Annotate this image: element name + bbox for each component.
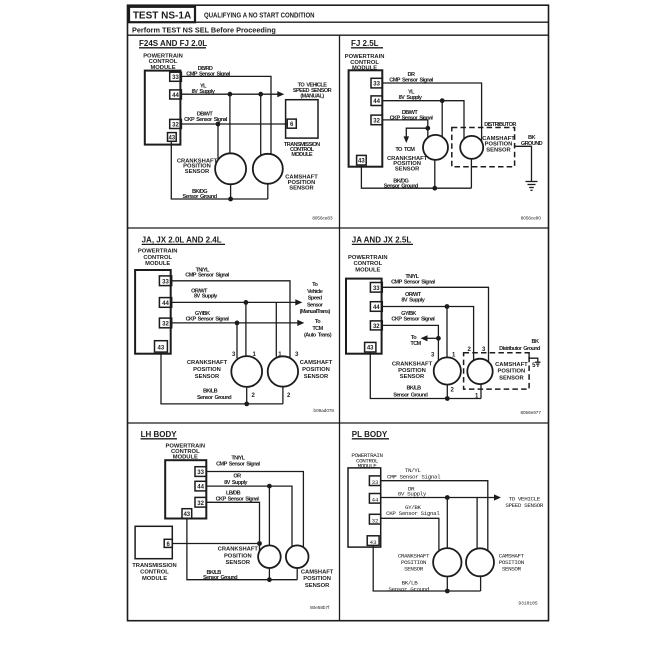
junction dot [445,495,450,500]
pin 32 [371,115,382,125]
wire CKP signal pin32 [382,325,438,360]
svg-text:Distributor Ground: Distributor Ground [499,346,541,352]
pin 43 [182,509,192,519]
junction dot [228,92,233,97]
wire CKP signal pin32 to TCM pin6 [181,123,287,125]
svg-text:POSITION: POSITION [303,576,331,582]
svg-text:CONTROL: CONTROL [353,261,382,267]
svg-text:Speed: Speed [308,296,323,302]
header divider line 2 [128,34,549,36]
camshaft position sensor circle [286,545,309,568]
svg-text:(MANUAL): (MANUAL) [300,93,324,99]
svg-text:CRANKSHAFT: CRANKSHAFT [218,547,259,553]
wire 8V to crank sensor pin1 [245,302,247,355]
wire 8V branch to cam sensor [476,498,478,550]
svg-text:43: 43 [370,539,377,546]
pin 43 [367,536,379,546]
wire 8V supply pin44 [382,101,464,139]
svg-text:9310105: 9310105 [518,601,538,607]
wire 8V supply pin44 to cam sensor pin2 [382,307,473,361]
junction dot [440,98,445,103]
svg-text:CONTROL: CONTROL [140,570,169,576]
junction dot ground [432,186,437,191]
crankshaft position sensor circle [258,545,281,568]
svg-text:32: 32 [373,324,380,330]
svg-text:SENSOR: SENSOR [502,565,522,572]
junction dot ground [267,577,272,582]
svg-text:8V Supply: 8V Supply [224,480,248,486]
junction dot ground [244,402,249,407]
pin 32 [195,497,206,507]
svg-text:SENSOR: SENSOR [305,583,330,589]
svg-text:PL BODY: PL BODY [352,430,388,439]
wire branch to TCM with left arrow [425,337,439,339]
svg-text:Vehicle: Vehicle [307,289,323,295]
svg-text:Sensor: Sensor [307,302,324,308]
camshaft position sensor circle [466,548,494,576]
svg-text:SENSOR: SENSOR [400,374,425,380]
svg-text:Sensor Ground: Sensor Ground [203,575,238,581]
svg-text:8056ce80: 8056ce80 [521,216,542,221]
wire CMP signal pin33 to cam sensor [382,83,481,142]
camshaft position sensor circle [253,154,283,184]
pin 33 [370,283,382,293]
svg-text:8V Supply: 8V Supply [194,294,218,300]
svg-text:80e58b7f: 80e58b7f [310,605,330,610]
svg-text:MODULE: MODULE [142,576,167,582]
svg-text:44: 44 [373,99,380,105]
wire TCM pin6 to CKP wire [172,543,259,545]
svg-text:CMP Sensor Signal: CMP Sensor Signal [185,273,229,279]
svg-text:32: 32 [197,501,204,507]
svg-text:SENSOR: SENSOR [395,167,420,173]
pin 33 [369,476,380,486]
svg-text:SENSOR: SENSOR [226,560,251,566]
svg-text:DISTRIBUTOR: DISTRIBUTOR [484,122,516,128]
svg-text:44: 44 [372,497,379,504]
junction dot [267,484,272,489]
crankshaft position sensor circle [433,548,461,576]
svg-text:CONTROL: CONTROL [143,255,172,261]
pin 43 [168,133,177,142]
svg-text:32: 32 [372,517,379,524]
svg-text:CKP Sensor Signal: CKP Sensor Signal [386,510,440,517]
arrow to vehicle speed sensor [494,494,501,500]
wire cam sensor to ground bus [267,184,269,199]
svg-text:Perform TEST NS SEL Before Pro: Perform TEST NS SEL Before Proceeding [132,25,276,34]
wire cam sensor pin2 to ground [282,387,284,404]
wire cam sensor to ground [296,568,298,580]
svg-text:MODULE: MODULE [291,152,313,158]
pin 33 [195,467,206,477]
wire 8V supply pin44 [172,301,298,303]
svg-text:43: 43 [367,346,374,352]
svg-text:OR: OR [233,474,241,480]
svg-text:POSITION: POSITION [398,368,426,374]
powertrain control module box U4 [346,279,382,354]
svg-text:MODULE: MODULE [145,261,170,267]
junction dot [244,300,249,305]
svg-text:44: 44 [162,301,169,307]
arrow down to TCM [404,136,410,143]
svg-text:SENSOR: SENSOR [289,186,314,192]
wire cam sensor to ground [480,576,482,591]
arrow to TCM [297,320,304,326]
svg-text:33: 33 [162,279,169,285]
svg-text:8V Supply: 8V Supply [401,297,425,303]
svg-text:JA AND JX 2.5L: JA AND JX 2.5L [352,236,412,245]
pin 44 [369,494,380,504]
arrow to vehicle speed sensor [277,91,284,97]
svg-text:CRANKSHAFT: CRANKSHAFT [392,361,433,367]
pin 43 [357,155,367,165]
junction dot TCM wire [257,541,262,546]
svg-text:8056ce83: 8056ce83 [312,216,333,221]
panel row divider 2 [128,422,549,424]
pin 43 [155,341,168,352]
svg-text:CAMSHAFT: CAMSHAFT [300,360,333,366]
powertrain control module box U5 [165,460,206,518]
svg-text:CMP Sensor Signal: CMP Sensor Signal [387,473,441,480]
svg-text:32: 32 [162,322,169,328]
wire distributor to ground [515,146,532,181]
pin 44 [370,302,382,312]
junction dot [216,122,221,127]
svg-text:F24S AND FJ 2.0L: F24S AND FJ 2.0L [139,39,207,48]
wire crank sensor to ground bus [434,160,436,188]
svg-text:44: 44 [373,305,380,311]
svg-text:TCM: TCM [410,341,421,347]
wire CMP signal pin33 to cam sensor pin3 [382,287,488,362]
ground wire from pin 43 [373,545,480,591]
svg-text:43: 43 [168,136,175,142]
svg-text:TO TCM: TO TCM [395,147,415,153]
svg-text:CKP Sensor Signal: CKP Sensor Signal [184,117,228,123]
svg-text:Sensor Ground: Sensor Ground [384,184,419,190]
camshaft position sensor circle [268,356,298,386]
svg-text:JA, JX 2.0L AND 2.4L: JA, JX 2.0L AND 2.4L [142,236,222,245]
svg-text:SENSOR: SENSOR [304,374,329,380]
svg-text:b09ad078: b09ad078 [314,408,335,413]
pin 6 [287,119,296,128]
wire 8V supply pin44 to cam sensor [206,486,292,547]
svg-text:POSITION: POSITION [498,369,526,375]
panel row divider 1 [128,227,549,229]
pin 32 [369,514,380,524]
svg-text:POSITION: POSITION [193,367,221,373]
svg-text:Sensor Ground: Sensor Ground [393,393,428,399]
ground wire from pin 43 [370,352,481,399]
transmission control module box [135,526,172,558]
crankshaft position sensor circle [434,357,461,384]
svg-text:MODULE: MODULE [355,268,380,274]
pin 32 [170,119,182,128]
powertrain control module box U2 [349,70,383,166]
pin 32 [159,318,171,328]
wire cam sensor to ground bus [470,159,472,188]
wire branch to TCM [406,128,428,138]
pin 33 [371,78,382,88]
wire CMP signal pin33 to cam sensor [172,281,290,358]
pin 6 [164,539,172,547]
crankshaft position sensor circle [215,153,246,184]
junction dot ground [445,589,450,594]
svg-text:SENSOR: SENSOR [486,147,511,153]
transmission control module box [286,100,318,138]
crankshaft position sensor circle [423,135,448,160]
svg-text:33: 33 [373,286,380,292]
junction dot [235,321,240,326]
svg-text:33: 33 [172,75,179,81]
camshaft position sensor circle [467,359,492,384]
svg-text:CAMSHAFT: CAMSHAFT [495,362,528,368]
svg-text:TEST NS-1A: TEST NS-1A [133,10,191,21]
svg-text:CMP Sensor Signal: CMP Sensor Signal [391,280,435,286]
svg-text:Sensor Ground: Sensor Ground [197,395,232,401]
svg-text:32: 32 [172,122,179,128]
wire CKP signal pin32 [382,120,428,138]
header divider line 1 [128,21,549,23]
junction dot [425,126,430,131]
wire CKP signal to crank sensor [217,124,219,159]
pin 32 [370,321,382,330]
powertrain control module box U1 [145,71,181,145]
wire CKP to crank sensor pin3 [236,323,238,359]
wire crank sensor pin2 to ground [246,388,248,404]
wire 8V to cam sensor [260,94,262,155]
ground symbol [526,182,538,191]
wire CMP signal pin33 [181,76,271,154]
svg-text:43: 43 [183,512,190,518]
wire CKP signal pin32 [172,322,300,324]
svg-text:POWERTRAIN: POWERTRAIN [138,249,178,255]
distributor dashed box [464,353,529,389]
wire 8V supply pin44 [381,497,497,499]
svg-text:32: 32 [373,118,380,124]
svg-text:CKP Sensor Signal: CKP Sensor Signal [216,496,260,502]
ground wire from pin 43 [171,141,267,199]
pin 44 [371,96,382,106]
ground symbol small [535,362,540,366]
wire distributor to ground 5 [529,353,538,362]
wire crank sensor to ground [446,576,448,591]
wire 8V to crank sensor [229,94,231,153]
header: TEST NS-1A box [129,7,195,22]
svg-text:BK/LB: BK/LB [406,386,421,392]
wire cam sensor pin1 to ground [480,384,482,398]
pin 43 [365,342,376,352]
svg-text:8V Supply: 8V Supply [398,491,427,498]
svg-text:CAMSHAFT: CAMSHAFT [301,570,334,576]
svg-text:Sensor Ground: Sensor Ground [388,586,430,593]
powertrain control module box U3 [135,270,171,354]
ground wire from pin 43 [187,518,297,579]
wire 8V to cam sensor pin1 [275,302,277,356]
svg-text:LH BODY: LH BODY [141,430,178,439]
junction dot [436,336,441,341]
svg-text:(Auto Trans): (Auto Trans) [304,333,332,339]
wire CKP signal pin32 to crank sensor [381,518,439,551]
wire CMP signal pin33 to cam sensor [206,472,303,549]
wire 8V to crank sensor [446,498,448,549]
arrow left to TCM [421,335,428,341]
arrow to vehicle speed sensor [295,299,302,305]
svg-text:FJ 2.5L: FJ 2.5L [351,39,379,48]
svg-text:33: 33 [372,479,379,486]
pin 44 [170,90,182,99]
svg-text:44: 44 [172,93,179,99]
svg-text:SENSOR: SENSOR [499,375,524,381]
svg-text:8V Supply: 8V Supply [399,95,423,101]
wire 8V to crank sensor [441,101,443,137]
svg-text:POSITION: POSITION [224,553,252,559]
svg-text:SPEED SENSOR: SPEED SENSOR [505,502,543,509]
junction dot [445,304,450,309]
wire 8V supply pin44 [181,93,280,95]
svg-text:POSITION: POSITION [302,367,330,373]
wire crank sensor to ground bus [230,184,232,199]
svg-text:CKP Sensor Signal: CKP Sensor Signal [186,316,230,322]
panel vertical divider [339,35,341,620]
pin 44 [195,481,206,491]
distributor dashed box [452,128,515,167]
pin 33 [170,72,182,81]
svg-text:8056e977: 8056e977 [520,410,541,415]
junction dot [258,92,263,97]
pin 33 [159,276,171,286]
wire 8V to crank sensor pin1 [446,307,448,358]
svg-text:SENSOR: SENSOR [185,169,210,175]
svg-text:CKP Sensor Signal: CKP Sensor Signal [391,317,435,323]
junction dot ground [445,396,450,401]
svg-text:33: 33 [197,470,204,476]
pin 44 [159,298,171,308]
svg-text:TCM: TCM [312,326,323,332]
junction dot ground [228,197,233,202]
svg-text:43: 43 [158,345,165,351]
svg-text:POWERTRAIN: POWERTRAIN [348,255,388,261]
svg-text:BK: BK [532,339,539,345]
ground wire from pin 43 [361,165,471,188]
svg-text:33: 33 [373,82,380,88]
ground wire from pin 43 [161,352,283,404]
svg-text:TRANSMISSION: TRANSMISSION [132,563,176,569]
wire crank sensor to ground [268,568,270,580]
svg-text:QUALIFYING A NO START CONDITIO: QUALIFYING A NO START CONDITION [204,11,315,20]
svg-text:SENSOR: SENSOR [404,565,424,572]
svg-text:43: 43 [358,159,365,165]
svg-text:(ManualTrans): (ManualTrans) [300,309,331,315]
svg-text:CMP Sensor Signal: CMP Sensor Signal [216,462,260,468]
camshaft position sensor circle [460,136,483,159]
svg-text:Sensor Ground: Sensor Ground [182,194,217,200]
page outer frame [128,5,549,621]
svg-text:CRANKSHAFT: CRANKSHAFT [187,360,228,366]
wire CMP signal pin33 to cam sensor [381,481,488,552]
crankshaft position sensor circle [231,356,262,387]
powertrain control module box U6 [348,468,381,547]
svg-text:SENSOR: SENSOR [195,374,220,380]
svg-text:BK/LB: BK/LB [203,389,218,395]
svg-text:44: 44 [197,485,204,491]
wire 8V to crank sensor [268,486,270,546]
wire CKP signal pin32 to crank sensor [206,502,259,551]
wire crank sensor pin2 to ground [446,385,448,399]
